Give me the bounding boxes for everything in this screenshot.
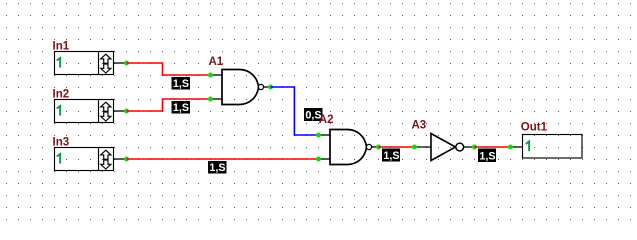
svg-text:In3: In3: [53, 136, 70, 148]
node A2 input2: [316, 157, 321, 162]
wire In2 to A1 input2 (red): [127, 99, 211, 111]
output Out1: [511, 121, 583, 158]
svg-text:A3: A3: [412, 120, 427, 132]
input In1: [53, 40, 127, 74]
node In1 output: [124, 61, 129, 66]
node A1 input1: [208, 73, 213, 78]
node A1 output: [268, 85, 273, 90]
value label 1,S on In1 wire: [172, 77, 191, 90]
value label 1,S on A2 output: [382, 149, 400, 163]
input In2: [53, 88, 127, 122]
inverter A3: [412, 120, 475, 161]
node A2 input1: [316, 133, 321, 138]
value label 1,S on A3 output: [478, 149, 496, 163]
input In3: [53, 136, 127, 170]
wire In1 to A1 input1 (red): [127, 63, 211, 75]
svg-text:1,S: 1,S: [209, 162, 225, 174]
svg-text:Out1: Out1: [521, 121, 548, 133]
node A2 output: [376, 145, 381, 150]
svg-text:In2: In2: [53, 88, 70, 100]
node A3 output: [472, 145, 477, 150]
nand gate A2: [319, 114, 379, 165]
svg-text:In1: In1: [53, 40, 70, 52]
wire A1 to A2 input1 (blue): [271, 87, 319, 135]
wire A2 to A3 (red): [379, 146, 415, 148]
node In3 output: [124, 157, 129, 162]
wire In3 to A2 input2 (red): [127, 158, 319, 160]
svg-text:1,S: 1,S: [173, 102, 189, 114]
svg-text:A2: A2: [319, 114, 334, 126]
node In2 output: [124, 109, 129, 114]
node A1 input2: [208, 97, 213, 102]
wire A3 to Out1 (red): [475, 146, 511, 148]
node A3 input: [412, 145, 417, 150]
svg-text:A1: A1: [209, 56, 224, 68]
svg-text:1,S: 1,S: [383, 150, 399, 162]
value label 1,S on In2 wire: [172, 101, 191, 114]
svg-text:1,S: 1,S: [173, 78, 189, 90]
svg-text:1,S: 1,S: [479, 150, 495, 162]
node Out1 input: [508, 145, 513, 150]
nand gate A1: [209, 56, 271, 105]
value label 1,S on In3 wire: [208, 161, 227, 174]
value label 0,S on A1-A2 wire: [304, 108, 323, 122]
